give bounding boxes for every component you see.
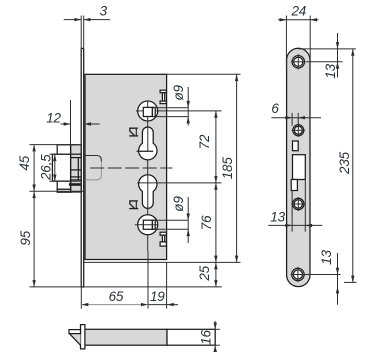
latch thick band: [69, 183, 81, 186]
detail symbol I-beam bottom right: [160, 232, 166, 246]
latch column row lines: [71, 153, 82, 155]
dimension 13 bottom: [319, 250, 339, 305]
latch top box B: [57, 145, 70, 154]
dimension 76: [199, 183, 218, 263]
svg-text:45: 45: [17, 155, 32, 170]
svg-text:235: 235: [337, 151, 352, 175]
detail symbol I-beam top right: [160, 90, 166, 103]
svg-text:24: 24: [290, 4, 306, 19]
dimension 6: [271, 101, 321, 126]
dimension 72: [137, 111, 222, 183]
latch tip bar side view: [69, 330, 81, 334]
svg-text:ø9: ø9: [171, 196, 186, 212]
screw hole lower middle: [291, 197, 305, 211]
screw hole bottom: [290, 267, 340, 282]
upper follower circle: [138, 101, 158, 121]
svg-text:26,5: 26,5: [39, 154, 54, 181]
svg-text:13: 13: [319, 250, 334, 265]
faceplate cross-section: [81, 325, 85, 349]
svg-text:72: 72: [197, 134, 212, 149]
svg-text:65: 65: [109, 289, 124, 304]
faceplate latch hole (13 wide): [293, 155, 306, 180]
dimension 24: [278, 4, 319, 71]
svg-text:3: 3: [100, 4, 108, 19]
dimension 45 left: [17, 145, 83, 192]
latch assembly front view: [52, 145, 81, 192]
dimension 25: [197, 262, 218, 287]
latch bottom box C: [57, 181, 70, 189]
latch column inner divider: [77, 158, 79, 180]
upper follower centerlines: [136, 101, 222, 251]
detail symbol sigma lower (left of lower keyhole): [129, 201, 138, 209]
svg-text:16: 16: [198, 330, 213, 345]
dimension o9 upper: [153, 84, 190, 125]
svg-text:13: 13: [323, 63, 338, 78]
latch tail rounded rect inside body: [85, 156, 101, 180]
svg-text:185: 185: [220, 157, 235, 180]
screw hole top: [291, 54, 306, 69]
svg-text:ø9: ø9: [171, 84, 186, 100]
svg-text:19: 19: [150, 289, 165, 304]
dimension 95 left: [18, 191, 222, 287]
dimension o9 lower: [153, 196, 190, 243]
dimension 65 and 19 bottom: [81, 251, 178, 309]
bottom bar lock case: [85, 329, 215, 345]
dimension 12 (latch protrusion): [46, 100, 100, 145]
svg-text:12: 12: [46, 110, 61, 125]
lower keyhole (euro profile mirrored): [139, 175, 157, 209]
faceplate notch hole 2: [291, 180, 297, 191]
dimension 3 (faceplate thickness): [64, 4, 110, 49]
dimension 13 top: [298, 33, 356, 79]
dimension 16: [198, 321, 219, 352]
lower follower square hole 9mm: [135, 220, 157, 229]
latch guide column outline: [71, 145, 82, 192]
svg-text:76: 76: [199, 215, 214, 230]
screw hole upper middle: [292, 124, 305, 137]
dimension 26,5 left: [39, 154, 81, 181]
faceplate notch hole 1: [293, 141, 299, 151]
latch bottom thin row: [57, 189, 70, 192]
faceplate stadium body: [287, 48, 310, 286]
upper keyhole (euro profile): [137, 127, 157, 160]
faceplate edge strip (front view): [81, 48, 85, 287]
svg-text:95: 95: [18, 230, 33, 245]
dimension 13 middle (latch hole width): [268, 180, 322, 232]
horizontal centerline: [90, 167, 172, 169]
latch bevel side view: gray wedge: [69, 334, 80, 346]
latch guide column gray: [71, 145, 82, 192]
detail symbol sigma upper (left of upper keyhole): [129, 128, 138, 136]
dimension 185: [83, 74, 241, 262]
dimension 235: [337, 49, 356, 283]
lock body case: [85, 74, 167, 259]
lower follower circle: [138, 215, 158, 235]
upper follower square hole 9mm: [143, 107, 155, 116]
latch plate A: [52, 154, 70, 181]
svg-text:6: 6: [271, 101, 279, 116]
svg-text:25: 25: [197, 265, 212, 281]
svg-text:13: 13: [270, 209, 285, 224]
